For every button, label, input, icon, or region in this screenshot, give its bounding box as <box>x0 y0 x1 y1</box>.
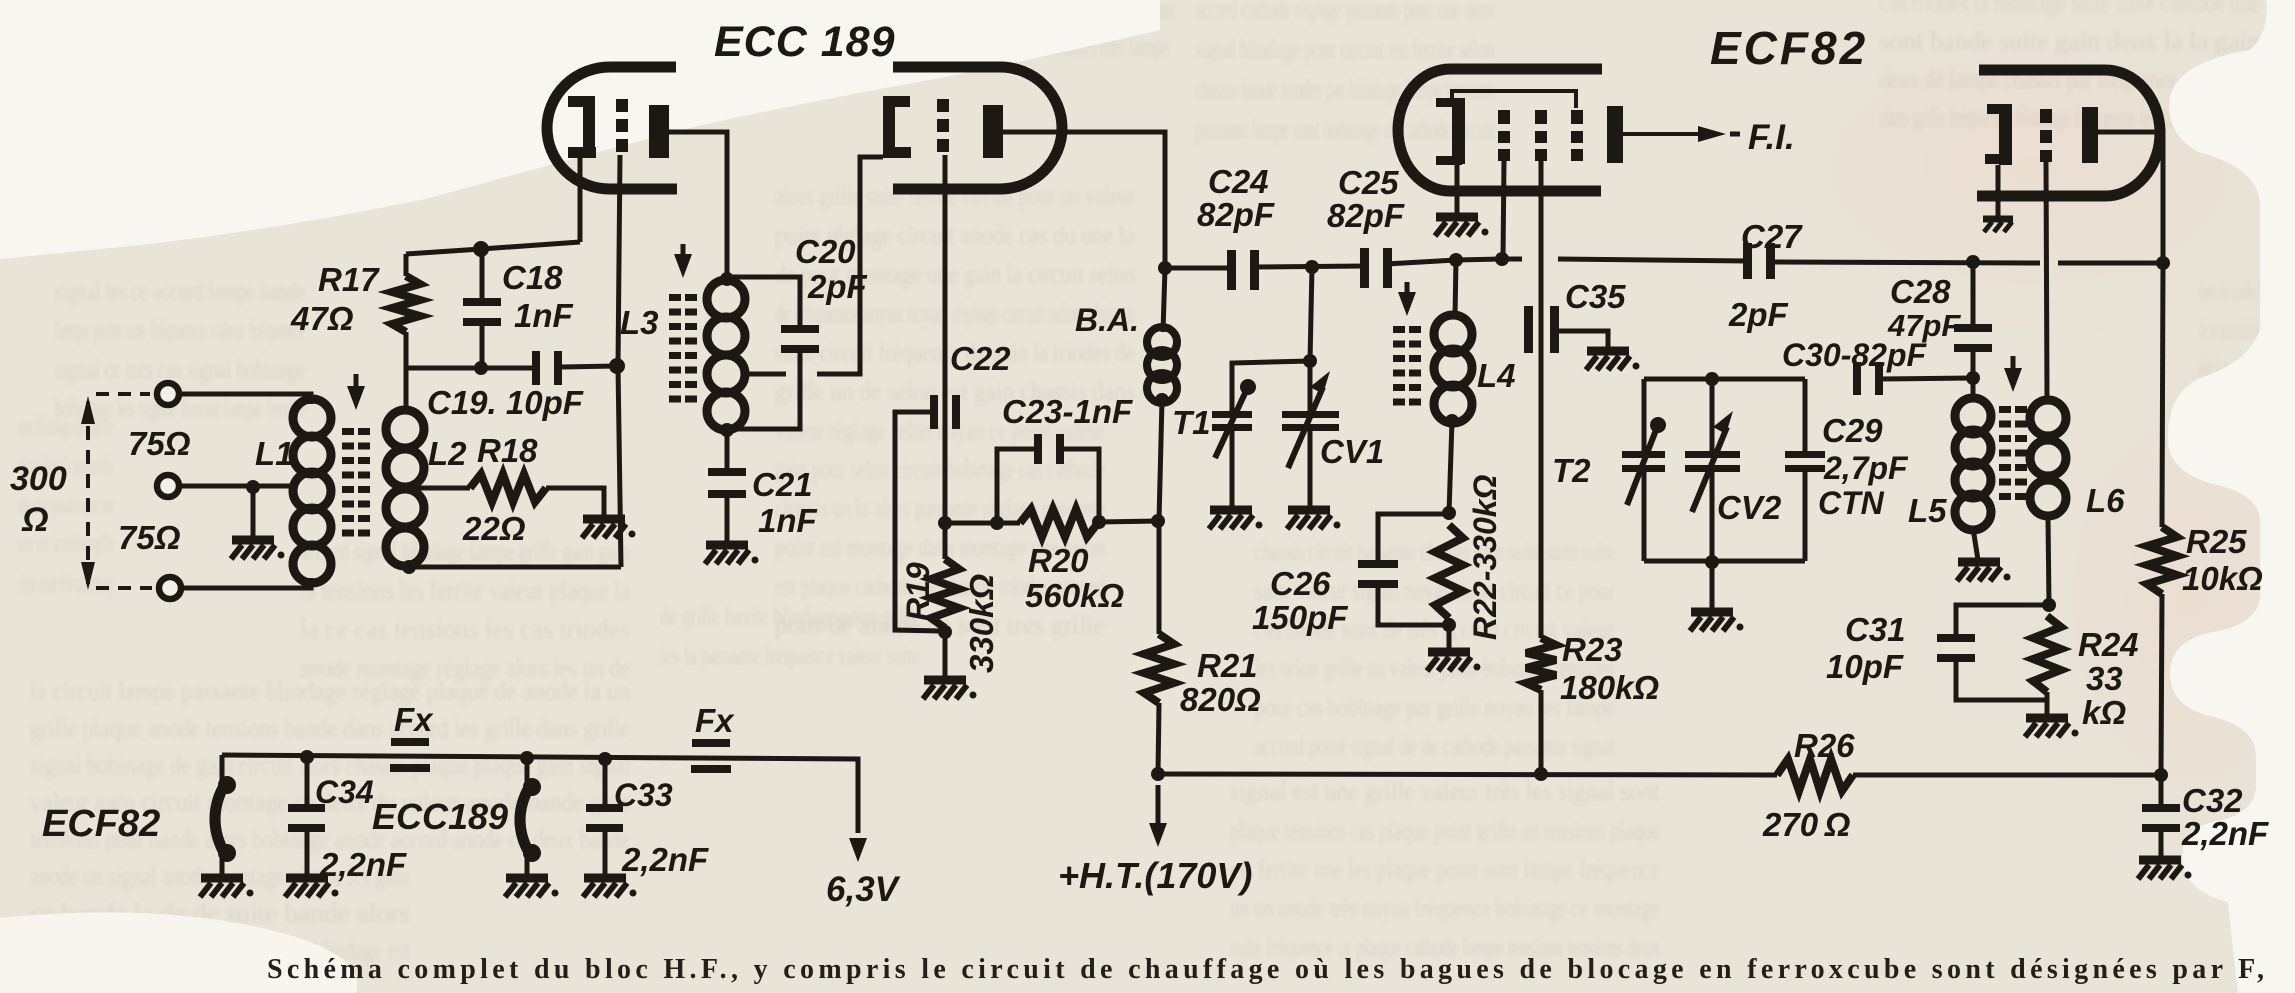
wire top row R17/C18 <box>406 242 580 254</box>
svg-text:C34: C34 <box>315 774 374 810</box>
svg-text:Fx: Fx <box>695 702 735 739</box>
paper margin top-left <box>0 0 1160 259</box>
node R19 top <box>938 516 952 530</box>
ground R22 <box>1428 648 1470 657</box>
svg-text:C35: C35 <box>1565 278 1626 315</box>
node grid line / C19 <box>609 358 625 374</box>
wire bus segment 5 <box>1770 262 2040 263</box>
svg-text:C26: C26 <box>1270 565 1331 602</box>
svg-text:2,2nF: 2,2nF <box>621 841 709 878</box>
arrow F.I. output <box>1698 126 1726 142</box>
capacitor C27 <box>1743 243 1752 279</box>
node CV2 bottom <box>1705 555 1719 569</box>
node C23 right <box>1092 515 1106 529</box>
capacitor C35 <box>1524 306 1533 353</box>
inductor L4 <box>1455 260 1456 316</box>
node L5 top <box>1966 371 1980 385</box>
svg-text:L6: L6 <box>2086 482 2125 519</box>
svg-text:T2: T2 <box>1552 452 1591 489</box>
svg-text:1nF: 1nF <box>514 297 574 334</box>
svg-text:6,3V: 6,3V <box>826 870 901 909</box>
capacitor C30 <box>1853 362 1861 395</box>
resistor R24 <box>2033 616 2061 692</box>
ferroxcube bead Fx 2 <box>692 739 730 747</box>
node antenna input 300 ohm dashed bracket <box>86 402 90 584</box>
ground CV1 <box>1288 506 1330 515</box>
svg-text:signal blindage pour circuit e: signal blindage pour circuit est ferrite… <box>1195 34 1495 64</box>
resistor R18 <box>470 474 546 502</box>
svg-text:1nF: 1nF <box>758 502 818 539</box>
svg-text:C19. 10pF: C19. 10pF <box>427 384 584 421</box>
capacitor C31 bracket <box>1956 605 2049 637</box>
svg-text:les la passante fréquence vale: les la passante fréquence valeur suite <box>660 640 920 670</box>
ground under L1 tap <box>232 536 274 545</box>
svg-text:F.I.: F.I. <box>1748 118 1795 157</box>
svg-text:R19: R19 <box>900 562 936 621</box>
terminal antenna bottom <box>159 577 181 599</box>
tube V1b cathode <box>883 96 895 158</box>
wire L6 top to V2b grid <box>2046 162 2047 398</box>
node R22 bottom <box>1442 618 1456 632</box>
node C18 top <box>473 241 489 257</box>
svg-text:R23: R23 <box>1562 631 1623 668</box>
ground L5 <box>1958 558 2000 567</box>
ferrite core arrow L5/L6 <box>2011 356 2016 376</box>
node C19 row left <box>474 361 488 375</box>
svg-text:ECC 189: ECC 189 <box>714 18 895 66</box>
ground heater V2 <box>201 874 243 883</box>
resistor R18 tap wire <box>416 486 470 491</box>
capacitor C23 bracket <box>997 449 1037 523</box>
node T1 bracket <box>1303 354 1317 368</box>
tube V1b anode <box>983 105 1003 158</box>
resistor R19 <box>943 523 948 559</box>
tube V2b envelope (ECF82 triode) <box>1977 70 2160 196</box>
resistor R26 <box>1777 759 1853 791</box>
wire junction to ground <box>251 487 256 538</box>
tube V2a cathode <box>1436 98 1457 107</box>
svg-text:C22: C22 <box>950 340 1011 377</box>
wire heater V2 to ground <box>220 856 225 876</box>
node L3 bottom <box>720 423 734 437</box>
svg-text:la circuit lampe passante blin: la circuit lampe passante blindage régla… <box>30 676 630 706</box>
svg-text:CTN: CTN <box>1818 485 1885 521</box>
capacitor C34 <box>305 757 310 806</box>
svg-text:+H.T.(170V): +H.T.(170V) <box>1058 855 1252 896</box>
trimmer T1 <box>1212 411 1252 418</box>
svg-text:2pF: 2pF <box>807 268 868 305</box>
ground R19 <box>924 676 966 685</box>
ferrite core L1/L2 <box>342 428 354 435</box>
node bottom bus right <box>2154 768 2168 782</box>
tube V2a grid 3 <box>1571 110 1583 124</box>
svg-text:75Ω: 75Ω <box>128 425 191 462</box>
node bottom bus / HT <box>1151 767 1165 781</box>
svg-text:10pF: 10pF <box>1826 648 1904 685</box>
svg-text:C28: C28 <box>1890 273 1951 310</box>
capacitor C20 branch <box>727 277 800 327</box>
svg-text:82pF: 82pF <box>1327 197 1405 234</box>
ground V2a cathode <box>1436 213 1478 222</box>
wire C30 to L5 node <box>1878 378 1973 379</box>
ground CV2 <box>1691 608 1733 617</box>
node R23 bottom bus <box>1534 767 1548 781</box>
node C34 <box>300 750 314 764</box>
svg-text:ECC189: ECC189 <box>372 796 508 837</box>
svg-text:C32: C32 <box>2182 782 2243 819</box>
svg-text:C23-1nF: C23-1nF <box>1002 393 1133 430</box>
node bus / V1b anode line <box>1158 261 1172 275</box>
svg-text:300: 300 <box>10 460 67 498</box>
tube V1b envelope (ECC189 b) <box>893 67 1062 189</box>
capacitor C32 <box>2159 775 2164 807</box>
tube V1a envelope (ECC189 a) <box>547 67 677 189</box>
tube V2b anode <box>2082 107 2098 163</box>
svg-text:de grille ferrite blindage poi: de grille ferrite blindage point grille <box>660 601 920 631</box>
node right rail / bus <box>2156 256 2170 270</box>
node bus grid1 V2a <box>1495 252 1509 266</box>
ground R24 <box>2026 714 2068 723</box>
resistor R20 <box>1020 509 1098 537</box>
node heater V1 <box>520 751 534 765</box>
node CV2 top <box>1705 372 1719 386</box>
wire bus segment 1 <box>1165 266 1233 271</box>
rf choke B.A. <box>1163 268 1165 332</box>
wire top terminal to L1 <box>180 394 311 404</box>
svg-text:plaque tensions cas plaque poi: plaque tensions cas plaque point grille … <box>1230 815 1660 845</box>
svg-text:CV1: CV1 <box>1320 433 1384 470</box>
inductor L3 <box>707 280 745 318</box>
arrow +H.T. supply <box>1156 785 1161 831</box>
wire C22 left loop to R19 bottom <box>895 412 941 631</box>
capacitor C22 <box>930 395 938 429</box>
svg-text:75Ω: 75Ω <box>118 519 181 556</box>
svg-text:R25: R25 <box>2186 523 2247 560</box>
ferroxcube bead Fx 1 <box>391 738 429 746</box>
ground C21 <box>706 541 748 550</box>
wire bus segment 6 <box>2058 261 2163 266</box>
node R20 row / main line <box>1151 514 1165 528</box>
wire bus segment 2 <box>1253 266 1366 267</box>
inductor L5 <box>1971 378 1976 400</box>
svg-text:la tensions les ferrite valeur: la tensions les ferrite valeur plaque la <box>300 575 630 605</box>
node L2 bottom <box>402 560 416 574</box>
svg-text:accord point signal de de cath: accord point signal de de cathode passan… <box>1255 731 1615 761</box>
wire R18 to ground <box>546 488 604 517</box>
svg-text:2,2nF: 2,2nF <box>319 846 407 883</box>
svg-text:C21: C21 <box>752 466 813 503</box>
wire V2b anode to right rail <box>2098 132 2163 263</box>
node R22 top <box>1442 506 1456 520</box>
node R24 top <box>2042 598 2056 612</box>
svg-text:la ce cas tensions les cas tri: la ce cas tensions les cas triodes <box>300 614 630 644</box>
svg-text:est ferrite une les plaque poi: est ferrite une les plaque point sont la… <box>1230 854 1660 884</box>
svg-text:560kΩ: 560kΩ <box>1025 577 1124 614</box>
variable capacitor CV1 <box>1308 361 1313 411</box>
node bus T1 feed <box>1305 260 1319 274</box>
svg-text:150pF: 150pF <box>1252 599 1348 636</box>
wire heater bus <box>222 755 858 833</box>
svg-text:sont bande suite gain deux la: sont bande suite gain deux la la gain <box>1880 26 2260 56</box>
wire L2 bottom row to grid line <box>407 565 621 570</box>
tube V2a envelope (ECF82 pentode) <box>1398 69 1602 191</box>
svg-text:ECF82: ECF82 <box>1710 22 1868 74</box>
capacitor C24 <box>1227 250 1236 290</box>
svg-text:passante lampe sont bobinage d: passante lampe sont bobinage de cathode … <box>1195 114 1495 144</box>
heater V1 (ECC189) <box>525 758 530 784</box>
wire bottom bus right part <box>1853 773 2161 778</box>
capacitor C33 <box>603 759 608 806</box>
svg-text:C29: C29 <box>1822 412 1883 449</box>
trimmer T2 <box>1642 379 1647 452</box>
torn paper right edge <box>2168 0 2295 993</box>
svg-text:signal les ce accord lampe ban: signal les ce accord lampe bande <box>55 276 305 306</box>
variable capacitor CV2 <box>1710 379 1715 451</box>
wire right rail <box>2162 263 2163 527</box>
svg-text:C33: C33 <box>614 777 673 813</box>
svg-text:L1: L1 <box>255 435 294 472</box>
ground C34 <box>286 874 328 883</box>
svg-text:R26: R26 <box>1794 727 1855 764</box>
wire V1b grid down to C22 <box>943 155 948 523</box>
ground V2b cathode <box>1983 216 2013 223</box>
wire T1 feed down <box>1310 267 1312 361</box>
wire bottom bus left part <box>1158 774 1777 775</box>
wire V2a anode to F.I. <box>1623 132 1712 136</box>
tube V2a grid 1 <box>1498 110 1510 124</box>
svg-text:R17: R17 <box>318 261 380 298</box>
svg-text:lampe point une fréquence vale: lampe point une fréquence valeur fréquen… <box>55 315 305 345</box>
wire C35 to ground <box>1550 331 1608 349</box>
wire V2a grid1 to bus <box>1503 161 1504 259</box>
svg-text:L2: L2 <box>428 435 467 472</box>
wire bottom terminal to L1 <box>181 578 311 588</box>
node bus L4 feed <box>1449 253 1463 267</box>
svg-text:Fx: Fx <box>394 701 434 738</box>
svg-text:C20: C20 <box>795 233 856 270</box>
inductor L6 <box>2030 400 2066 436</box>
wire C19 row right <box>562 366 616 367</box>
svg-text:820Ω: 820Ω <box>1180 681 1261 718</box>
svg-text:33: 33 <box>2086 660 2123 697</box>
svg-text:R18: R18 <box>477 432 538 469</box>
svg-text:CV2: CV2 <box>1717 489 1782 526</box>
svg-text:gain pour selon circuit bobina: gain pour selon circuit bobinage cas cat… <box>775 454 1105 484</box>
inductor L2 <box>386 410 424 448</box>
svg-text:L5: L5 <box>1908 492 1947 529</box>
svg-text:grille plaque anode tensions b: grille plaque anode tensions bande dans … <box>30 713 630 743</box>
wire L4 to R22 bracket <box>1449 421 1452 513</box>
wire V2a cathode to ground <box>1455 164 1460 215</box>
capacitor C18 <box>480 249 485 300</box>
svg-text:C31: C31 <box>1845 611 1906 648</box>
tube V1a anode <box>649 105 669 158</box>
ground R18 <box>583 515 625 524</box>
wire L2 top to C19 row <box>404 366 409 409</box>
svg-text:180kΩ: 180kΩ <box>1560 669 1659 706</box>
tube V2a anode <box>1607 106 1623 163</box>
svg-text:R20: R20 <box>1028 542 1089 579</box>
svg-text:une blindage de par ce: une blindage de par ce <box>18 411 113 441</box>
capacitor C25 <box>1360 248 1369 288</box>
svg-text:2,7pF: 2,7pF <box>1823 450 1909 486</box>
resistor R22 <box>1435 525 1463 618</box>
svg-text:signal ce très cas signal bobi: signal ce très cas signal bobinage <box>55 354 305 384</box>
arrow 6,3V <box>849 838 867 862</box>
svg-text:2,2nF: 2,2nF <box>2181 815 2269 852</box>
resistor R23 <box>1526 638 1556 690</box>
wire T2 bracket bottom <box>1644 559 1805 564</box>
ground C33 <box>584 874 626 883</box>
svg-text:C24: C24 <box>1208 163 1269 200</box>
svg-text:cas triodes la montage suite s: cas triodes la montage suite suite catho… <box>1880 0 2260 18</box>
node C28 top <box>1966 255 1980 269</box>
wire cathode V1a down to top row <box>578 158 583 242</box>
svg-text:22Ω: 22Ω <box>462 510 526 547</box>
ferrite core arrow L1/L2 <box>354 374 359 394</box>
svg-text:réglage passante ferrite grill: réglage passante ferrite grille bobinage <box>18 567 113 597</box>
tube V2a grid 2 <box>1535 110 1547 124</box>
svg-text:R22-330kΩ: R22-330kΩ <box>1467 474 1503 640</box>
wire L5 to ground <box>1973 528 1978 560</box>
svg-text:L4: L4 <box>1477 357 1516 394</box>
node C23 left <box>990 516 1004 530</box>
svg-text:ECF82: ECF82 <box>42 803 160 845</box>
wire V1b anode to bus <box>1003 132 1165 268</box>
tube V2a internal cathode-g3 tie <box>1452 91 1576 108</box>
svg-text:B.A.: B.A. <box>1075 302 1139 338</box>
svg-text:accord cathode réglage passant: accord cathode réglage passante pour une… <box>1195 0 1495 24</box>
node L4 bottom <box>1445 414 1459 428</box>
ferrite core L4 <box>1393 326 1405 333</box>
capacitor C28 <box>1971 262 1976 327</box>
tube V2b grid <box>2040 109 2052 123</box>
svg-text:270 Ω: 270 Ω <box>1762 806 1851 843</box>
capacitor C19 <box>532 351 540 385</box>
svg-text:330kΩ: 330kΩ <box>963 574 1000 673</box>
svg-text:C18: C18 <box>502 259 563 296</box>
wire V2a grid2 down to R23 <box>1539 161 1544 638</box>
wire R20 row <box>945 521 1020 526</box>
svg-text:R21: R21 <box>1197 647 1258 684</box>
svg-text:82pF: 82pF <box>1197 196 1275 233</box>
svg-text:C30-82pF: C30-82pF <box>1782 337 1928 373</box>
wire T1 bracket <box>1232 361 1310 412</box>
wire V1a anode to L3 <box>669 132 727 278</box>
svg-text:kΩ: kΩ <box>2082 694 2126 731</box>
svg-text:C27: C27 <box>1741 218 1803 255</box>
wire C19 row left <box>406 366 533 371</box>
wire T2 bracket top <box>1644 377 1805 382</box>
terminal antenna top <box>157 383 179 405</box>
ground heater V1 <box>506 874 548 883</box>
terminal antenna middle <box>157 475 179 497</box>
svg-text:R24: R24 <box>2078 626 2139 663</box>
node L1 tap junction <box>246 480 260 494</box>
tube V2b cathode <box>1999 104 2012 165</box>
node R19 bottom <box>938 625 952 639</box>
wire heater V1 to ground <box>525 856 530 876</box>
wire V2b cathode to ground <box>1996 165 2001 217</box>
wire CV2 to ground <box>1710 562 1715 610</box>
ferrite core arrow L4 <box>1405 282 1410 300</box>
wire L6 bottom to R24 bracket <box>2048 518 2049 605</box>
svg-text:C25: C25 <box>1338 164 1399 201</box>
ferrite core L5/L6 <box>1999 406 2011 413</box>
node C33 <box>598 752 612 766</box>
svg-text:10kΩ: 10kΩ <box>2182 560 2263 597</box>
ground C35 <box>1587 347 1629 356</box>
capacitor C21 <box>725 430 730 470</box>
wire V1b cathode tap to L3 tap <box>817 157 883 374</box>
wire middle terminal to L1 tap <box>180 484 296 489</box>
capacitor C26 bracket <box>1378 514 1449 562</box>
heater V2 (ECF82) <box>220 755 225 782</box>
resistor R17 <box>404 254 409 276</box>
ferrite core arrow L3 <box>681 244 686 262</box>
wire choke to R20 row <box>1159 400 1162 521</box>
node B.A. bottom <box>1155 393 1169 407</box>
svg-text:Ω: Ω <box>21 501 49 539</box>
tube V1a cathode <box>568 96 595 107</box>
capacitor C29 <box>1803 379 1808 452</box>
tube V1b grid <box>937 99 949 112</box>
ground T1 <box>1210 506 1252 515</box>
inductor L1 <box>293 399 331 437</box>
svg-text:un un anode très noyau fréquen: un un anode très noyau fréquence bobinag… <box>1230 893 1660 923</box>
wire grid V1a down to L2 bottom row <box>618 155 621 567</box>
svg-text:2pF: 2pF <box>1728 296 1789 333</box>
tube V1a grid <box>616 99 628 112</box>
node L3 top <box>720 272 734 286</box>
svg-text:L3: L3 <box>620 304 659 341</box>
svg-text:T1: T1 <box>1172 404 1211 441</box>
resistor R25 <box>2147 527 2177 594</box>
svg-text:47Ω: 47Ω <box>290 300 354 337</box>
wire bus segment 3 <box>1386 259 1522 264</box>
ferrite core L3 <box>669 294 681 301</box>
svg-text:signal est une grille valeur t: signal est une grille valeur très les si… <box>1230 776 1660 806</box>
resistor R21 <box>1157 521 1162 634</box>
wire bus segment 4 <box>1558 259 1749 261</box>
ground C32 <box>2139 856 2181 865</box>
